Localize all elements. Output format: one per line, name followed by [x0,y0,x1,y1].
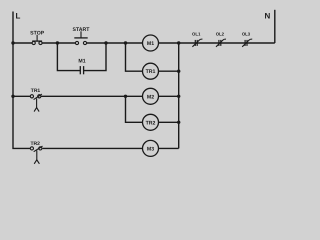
pushbutton START (NO) [74,31,87,44]
contact M1 (seal-in, NO) [80,66,83,74]
wire rung1: M1 coil to N through overloads [159,42,275,44]
svg-text:M3: M3 [147,146,154,152]
overload contact OL2 (NC) [216,39,226,47]
svg-text:M1: M1 [147,41,154,47]
wire rung3: TR2 contact to M3 coil [43,147,143,149]
wire: right return bus [178,43,180,148]
wire branch: TR2 coil feed from rung2 [126,96,143,122]
wire rung2: L rail to TR1 contact [13,95,30,97]
wire rung2: TR1 contact to M2 coil [41,95,143,97]
wire: TR2 coil to bus [159,121,179,123]
contact TR1 (NO timed closed) [30,94,42,112]
node: TR2 coil tap junction [124,95,127,98]
node: branch right junction [104,41,107,44]
wire: M3 coil to bus [159,147,179,149]
wire rung1: L rail to STOP [13,42,32,44]
svg-text:TR1: TR1 [31,88,41,94]
wire: M2 coil to bus [159,95,179,97]
node: bus TR2 junction [177,121,180,124]
svg-text:STOP: STOP [30,30,45,36]
node: branch left junction [56,41,59,44]
node: L-rung1 junction [11,41,14,44]
rail L (left power rail) [13,12,30,149]
coil TR2 [143,114,159,130]
svg-text:TR1: TR1 [146,69,156,75]
svg-text:M2: M2 [147,94,154,100]
svg-text:START: START [73,27,91,33]
wire rung1: START to M1 coil [87,42,143,44]
node: bus rung1 junction [177,41,180,44]
svg-text:OL3: OL3 [242,31,251,36]
svg-text:TR2: TR2 [146,120,156,126]
node: bus TR1 junction [177,70,180,73]
svg-text:OL2: OL2 [216,31,225,36]
node: bus rung2 junction [177,95,180,98]
coil TR1 [143,63,159,79]
rail N (right power rail) [274,10,276,43]
overload contact OL3 (NC) [242,39,252,47]
node: L-rung2 junction [11,95,14,98]
overload contact OL1 (NC) [192,39,202,47]
node: TR1 coil tap junction [124,41,127,44]
wire branch: TR1 coil feed from rung1 [126,43,143,71]
svg-text:L: L [16,12,21,21]
svg-text:N: N [265,11,271,20]
svg-text:M1: M1 [78,59,85,65]
wire branch: M1 seal-in branch around START [57,43,106,71]
wire: TR1 coil to bus [159,70,179,72]
wire rung1: STOP to START [42,42,75,44]
svg-text:OL1: OL1 [192,31,201,36]
pushbutton STOP (NC) [32,35,42,45]
svg-text:TR2: TR2 [30,141,40,147]
coil M1 [143,35,159,51]
coil M2 [143,88,159,104]
contact TR2 (NO timed closed) [30,146,42,164]
coil M3 [143,140,159,156]
